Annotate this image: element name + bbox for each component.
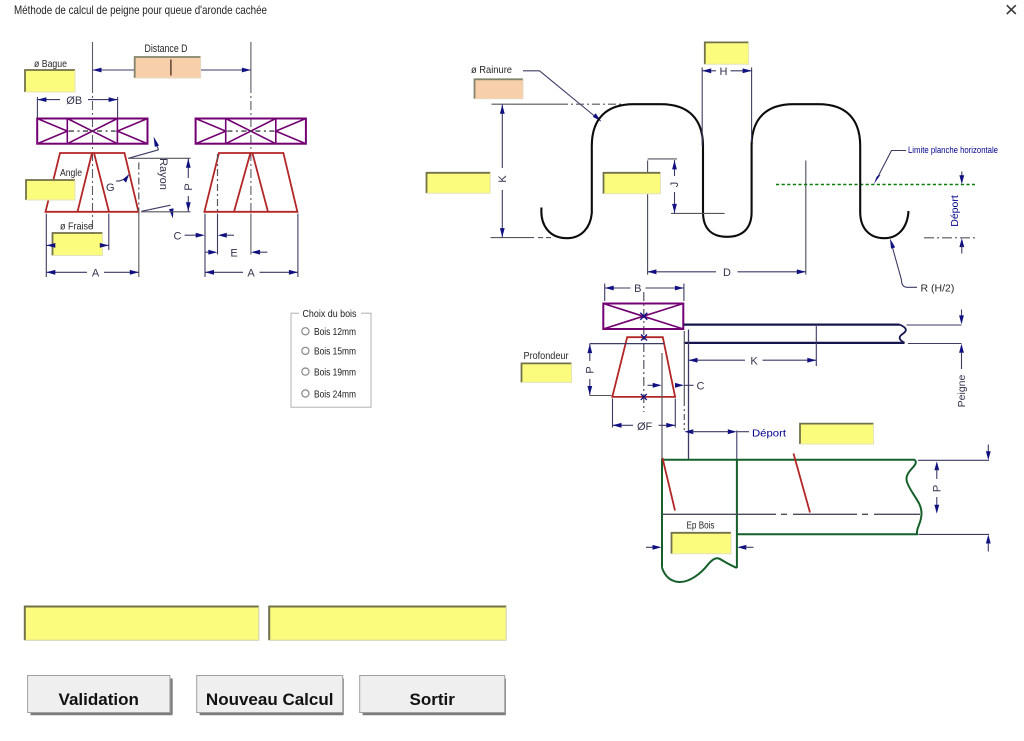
svg-text:Rayon: Rayon — [157, 158, 169, 190]
comb edge reference (dash-dot) — [683, 331, 685, 430]
svg-text:Nouveau Calcul: Nouveau Calcul — [206, 690, 334, 709]
centerline comb bit (dash-dot) — [643, 292, 645, 412]
label Limite planche horizontale with leader — [874, 145, 998, 184]
radio Bois 24mm — [302, 388, 356, 400]
comb bar thin continuation — [907, 325, 962, 344]
dimension B — [605, 283, 684, 301]
center mark bushing B — [640, 313, 647, 320]
input ø Bague (yellow box) — [25, 70, 75, 92]
svg-text:Distance D: Distance D — [145, 43, 188, 55]
dimension peigne (comb thickness) — [956, 310, 968, 408]
button Sortir — [360, 676, 506, 715]
input Distance D (peach box) — [135, 57, 201, 78]
bushing right center mark — [227, 130, 274, 132]
svg-text:ø Bague: ø Bague — [34, 58, 67, 70]
dimension E — [205, 248, 268, 260]
centerline left assembly — [92, 42, 94, 233]
dimension ø Fraise — [46, 214, 109, 250]
svg-text:Ep Bois: Ep Bois — [687, 520, 715, 531]
dimension H — [702, 66, 751, 146]
dimension P left: top reference — [128, 157, 191, 159]
svg-text:ØF: ØF — [637, 421, 653, 433]
result field 2 (yellow) — [269, 607, 506, 641]
input H (yellow box top) — [705, 42, 749, 64]
input ø Fraise (yellow box) — [53, 233, 103, 256]
svg-text:E: E — [230, 248, 237, 260]
svg-text:P: P — [585, 366, 597, 373]
dimension C left drawing — [174, 214, 235, 277]
dimension K top reference — [492, 103, 623, 105]
svg-text:Bois 19mm: Bois 19mm — [314, 366, 356, 378]
input Ep Bois (yellow box) — [672, 533, 732, 554]
comb left edge line — [688, 330, 690, 460]
label R (H/2) with leader — [890, 239, 954, 295]
svg-text:C: C — [174, 230, 182, 242]
svg-text:G: G — [106, 182, 115, 194]
router bit B (red trapezoid) — [612, 337, 675, 397]
ø Rainure leader — [523, 71, 602, 122]
radio Bois 19mm — [302, 366, 356, 378]
svg-text:ØB: ØB — [66, 95, 82, 107]
button Validation — [28, 676, 173, 715]
guide bushing B (crossed box) — [603, 304, 683, 330]
center mark bit top — [641, 335, 647, 341]
comb profile curve — [541, 104, 908, 238]
dimension Déport comb — [684, 427, 786, 459]
input ø Rainure (peach box) — [475, 79, 524, 99]
svg-text:Bois 15mm: Bois 15mm — [314, 346, 356, 358]
centerline right assembly — [250, 42, 252, 255]
dimension board thickness right — [986, 445, 991, 552]
group box Choix du bois — [291, 308, 371, 407]
svg-text:Bois 24mm: Bois 24mm — [314, 388, 356, 400]
input Angle (yellow box) — [26, 180, 75, 200]
svg-text:Méthode de calcul de peigne po: Méthode de calcul de peigne pour queue d… — [14, 3, 267, 17]
dimension P left: bottom reference — [141, 211, 191, 213]
centerline socket 1 — [647, 161, 649, 275]
result field 1 (yellow) — [25, 607, 259, 641]
hook bottom reference (dash-dot) — [924, 237, 976, 239]
dimension A right — [205, 214, 298, 280]
boards (green outline) — [662, 460, 922, 582]
input Déport (yellow box) — [800, 424, 874, 445]
dimension Distance D — [93, 43, 251, 72]
dimension A left — [46, 212, 139, 280]
svg-text:Peigne: Peigne — [956, 374, 968, 407]
svg-text:A: A — [247, 268, 255, 280]
label G with leader — [106, 174, 129, 194]
bushing left center mark — [69, 130, 116, 132]
close button X — [1007, 5, 1016, 14]
svg-text:Bois 12mm: Bois 12mm — [314, 326, 356, 338]
svg-text:P: P — [183, 183, 195, 190]
dovetail pin line 1 (red) — [663, 458, 676, 511]
button Nouveau Calcul — [197, 676, 344, 715]
board face reference line — [661, 353, 663, 460]
radius axis left (dash-dot) — [138, 163, 140, 212]
input K (yellow box left) — [427, 173, 491, 194]
dimension J — [648, 159, 725, 214]
dimension Déport upper — [949, 172, 964, 254]
svg-text:ø Fraise: ø Fraise — [60, 221, 93, 233]
router bit right (red trapezoid) — [204, 153, 297, 212]
radio Bois 15mm — [302, 346, 356, 358]
dimension ØF — [613, 399, 676, 433]
svg-text:C: C — [697, 381, 705, 393]
board bottom extension line — [919, 533, 990, 535]
dimension K bottom reference — [491, 237, 553, 239]
rayon leader bottom — [142, 205, 174, 218]
svg-text:J: J — [669, 182, 681, 188]
dimension P comb — [585, 344, 665, 396]
dimension K lower — [689, 326, 817, 367]
radio Bois 12mm — [302, 326, 356, 338]
svg-text:Déport: Déport — [752, 427, 786, 439]
svg-text:P: P — [932, 485, 944, 492]
guide bushing left (crossed rectangle) — [37, 119, 147, 144]
svg-text:Déport: Déport — [949, 195, 961, 227]
svg-text:A: A — [92, 268, 100, 280]
center mark bit bottom — [641, 394, 647, 400]
guide bushing right (crossed rectangle) — [196, 119, 306, 144]
board top extension line — [918, 459, 989, 461]
limite planche horizontale (green dashed line) — [776, 184, 975, 186]
dimension D — [647, 267, 805, 279]
rayon leader top — [129, 137, 159, 159]
dimension ØB — [37, 95, 117, 118]
comb plane line (gray) — [662, 513, 920, 515]
comb bar thick edges — [684, 325, 906, 343]
centerline socket 2 — [805, 161, 807, 275]
svg-text:Validation: Validation — [59, 690, 139, 709]
dimension C comb — [648, 381, 705, 393]
router bit left (red trapezoid) — [46, 153, 139, 212]
svg-text:K: K — [750, 355, 758, 367]
svg-text:Limite planche horizontale: Limite planche horizontale — [908, 145, 998, 155]
svg-text:Choix du bois: Choix du bois — [303, 308, 357, 320]
svg-text:Sortir: Sortir — [410, 690, 456, 709]
dimension K — [497, 104, 509, 237]
svg-text:B: B — [634, 283, 641, 295]
input J (yellow box middle) — [604, 173, 661, 194]
dimension Ep Bois arrows — [646, 545, 754, 550]
svg-text:Angle: Angle — [60, 167, 82, 179]
dovetail pin line 2 (red) — [794, 454, 811, 513]
svg-text:Profondeur: Profondeur — [524, 350, 569, 362]
svg-text:K: K — [497, 175, 509, 183]
svg-text:ø Rainure: ø Rainure — [471, 64, 512, 76]
dimension P board — [932, 461, 944, 514]
input Profondeur (yellow box) — [522, 363, 572, 382]
svg-text:R (H/2): R (H/2) — [921, 283, 955, 295]
svg-text:D: D — [723, 267, 731, 279]
svg-text:H: H — [720, 66, 728, 78]
radius axis right (dash-dot) — [217, 154, 219, 212]
dimension P left — [183, 158, 195, 212]
